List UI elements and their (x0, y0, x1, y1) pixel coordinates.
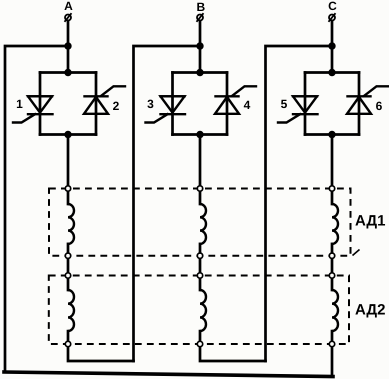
svg-text:A: A (64, 0, 73, 13)
svg-text:C: C (328, 0, 337, 13)
svg-text:B: B (196, 0, 205, 14)
svg-text:АД1: АД1 (355, 213, 385, 230)
svg-text:5: 5 (281, 97, 288, 111)
svg-text:4: 4 (244, 98, 251, 112)
svg-text:6: 6 (376, 99, 383, 113)
svg-text:1: 1 (16, 97, 23, 111)
svg-text:АД2: АД2 (355, 302, 385, 319)
svg-text:2: 2 (113, 99, 120, 113)
svg-text:3: 3 (147, 97, 154, 111)
